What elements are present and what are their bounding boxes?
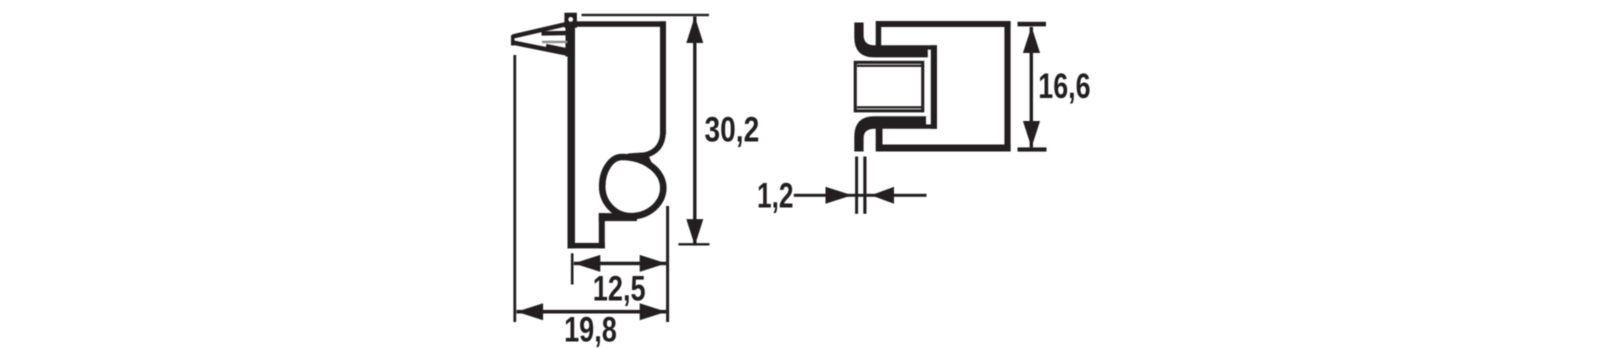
svg-text:16,6: 16,6 xyxy=(1038,67,1090,106)
svg-text:19,8: 19,8 xyxy=(564,311,617,349)
svg-text:1,2: 1,2 xyxy=(757,177,794,216)
svg-text:30,2: 30,2 xyxy=(705,111,760,150)
svg-text:12,5: 12,5 xyxy=(593,269,646,308)
